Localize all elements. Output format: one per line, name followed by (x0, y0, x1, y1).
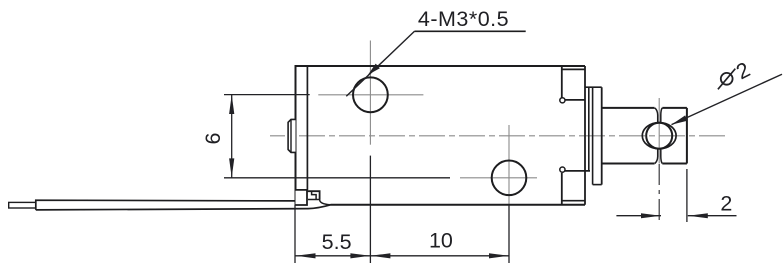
dim 5.5 arrow left (296, 253, 316, 258)
body outline (296, 66, 586, 205)
dim 2 line right (688, 215, 737, 217)
shaft groove bottom (655, 149, 658, 164)
center line lower hole vertical (508, 125, 510, 205)
terminal notch (312, 191, 317, 199)
shaft end face (686, 108, 688, 164)
svg-text:4-M3*0.5: 4-M3*0.5 (418, 7, 509, 31)
label dia2 arrowhead (672, 115, 688, 124)
bottom mounting tab (565, 170, 590, 172)
svg-text:6: 6 (201, 132, 225, 144)
svg-text:5.5: 5.5 (322, 230, 352, 254)
dim 6 extension top (224, 94, 310, 96)
shaft groove top (655, 108, 658, 123)
svg-text:2: 2 (720, 191, 732, 215)
dim 6 extension bottom / lower hole centerline (224, 177, 450, 179)
label 4-M3*0.5 leader (346, 31, 414, 96)
center line shaft hole vertical (658, 98, 660, 164)
svg-text:10: 10 (429, 229, 453, 253)
label 4-M3*0.5 underline (415, 30, 526, 32)
wire insulation (36, 200, 296, 210)
top mounting tab (561, 66, 563, 98)
wire bottom edge curving into body (36, 205, 331, 210)
center line lower hole horizontal (460, 177, 537, 179)
dim 6 arrow up (229, 95, 234, 114)
top tab bend circle (560, 98, 565, 103)
dim 6 line (231, 95, 233, 178)
body inner left line (306, 66, 308, 190)
bushing (592, 87, 594, 184)
dim 5.5 arrow right (350, 253, 370, 258)
dim 10 arrow right (489, 253, 509, 258)
terminal block 1 (296, 190, 308, 205)
center line upper hole horizontal (318, 94, 423, 96)
wire bare tip (9, 202, 36, 208)
shaft hole circle (646, 123, 672, 149)
dim 2 arrow right (688, 213, 708, 218)
label dia2 symbol circle (721, 73, 733, 85)
terminal lower lip (308, 200, 331, 205)
body bottom edge (331, 204, 586, 206)
center line upper hole vertical (369, 41, 371, 145)
shaft hole ellipse projection (642, 123, 676, 149)
center line horizontal main (270, 135, 725, 137)
label 4-M3*0.5 arrowhead (368, 64, 380, 75)
dim 2 line left (616, 215, 661, 217)
label dia2 symbol slash (718, 69, 735, 90)
plunger shaft (602, 107, 655, 109)
label dia2 leader (672, 74, 783, 124)
dim 5.5 / 10 extensions (294, 205, 296, 263)
front plate (584, 66, 586, 205)
dim 5.5/10 line (295, 255, 509, 257)
dim 2 extension right (686, 169, 688, 222)
dim 2 extension left dashed centerline (658, 164, 660, 222)
dim 6 arrow down (229, 158, 234, 177)
terminal block 2 (307, 191, 320, 199)
lower hole M3 (492, 161, 527, 196)
dim 10 arrow left (371, 253, 391, 258)
dim 2 arrow left (641, 213, 661, 218)
bottom tab bend circle (560, 167, 565, 172)
left bump (288, 119, 295, 152)
upper hole M3 (353, 77, 388, 112)
